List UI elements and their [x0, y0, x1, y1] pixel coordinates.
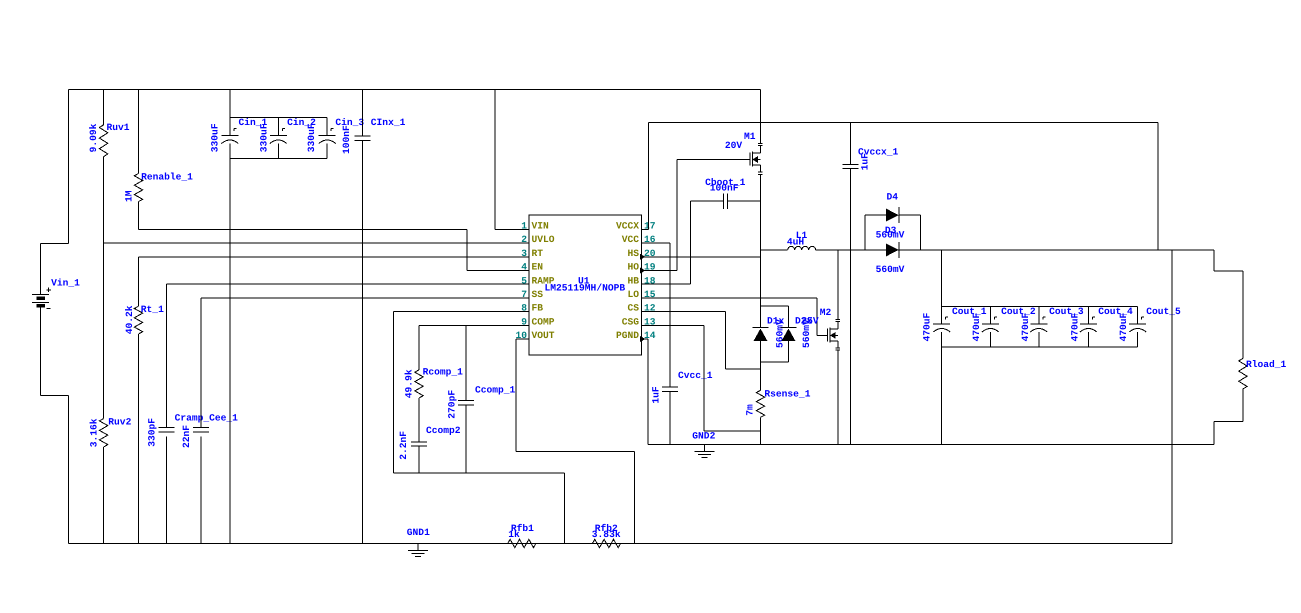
svg-text:1uF: 1uF	[650, 386, 661, 404]
svg-text:HO: HO	[627, 262, 639, 273]
svg-text:470uF: 470uF	[922, 312, 933, 341]
svg-text:3.83k: 3.83k	[592, 529, 621, 540]
resistor Rfb2	[592, 539, 620, 547]
svg-text:40.2k: 40.2k	[124, 305, 135, 334]
svg-text:VCCX: VCCX	[616, 221, 639, 232]
svg-text:Cout_5: Cout_5	[1146, 306, 1181, 317]
svg-text:9: 9	[521, 316, 527, 327]
ground GND1	[417, 544, 419, 551]
resistor Rfb1	[508, 539, 536, 547]
wire switch node to output node	[816, 249, 1214, 251]
svg-text:M1: M1	[744, 131, 756, 142]
wire Cout column 1	[941, 250, 943, 307]
capacitor Cvcc_1	[662, 386, 678, 388]
svg-text:8: 8	[521, 303, 527, 314]
svg-text:7m: 7m	[744, 404, 755, 416]
svg-text:20V: 20V	[725, 140, 743, 151]
wire SS net	[201, 297, 529, 299]
svg-text:4uH: 4uH	[787, 237, 805, 248]
svg-text:Rt_1: Rt_1	[141, 304, 164, 315]
resistor Rload_1	[1213, 250, 1215, 271]
svg-text:D3: D3	[885, 225, 897, 236]
wire comp network bottom	[393, 472, 564, 474]
diode D4	[864, 215, 866, 250]
wire M1 source to switch node	[759, 174, 761, 250]
svg-text:330pF: 330pF	[146, 418, 157, 447]
wire HB to Cboot	[642, 283, 691, 285]
svg-text:4: 4	[521, 262, 527, 273]
svg-text:22nF: 22nF	[181, 425, 192, 448]
svg-text:2.2nF: 2.2nF	[398, 431, 409, 460]
wire HO to M1 gate	[642, 270, 677, 272]
inductor L1	[760, 249, 787, 251]
svg-text:VOUT: VOUT	[532, 330, 555, 341]
wire VCC net	[642, 242, 670, 244]
resistor Ruv1	[103, 90, 105, 125]
wire UVLO	[104, 242, 529, 244]
svg-text:Cvcc_1: Cvcc_1	[678, 370, 713, 381]
wire VCCX rail	[649, 122, 1158, 124]
svg-text:Ccomp_1: Ccomp_1	[475, 384, 516, 395]
wire CS net	[642, 311, 726, 313]
svg-text:3.16k: 3.16k	[88, 418, 99, 447]
wire FB net	[393, 311, 529, 313]
svg-text:1k: 1k	[508, 529, 520, 540]
svg-text:Renable_1: Renable_1	[141, 172, 193, 183]
svg-text:Ruv1: Ruv1	[107, 122, 130, 133]
wire CSG net	[642, 324, 705, 326]
transistor M1	[759, 123, 761, 144]
op-amp U1 LM25119MH/NOPB body	[529, 215, 642, 355]
capacitor Ccomp2	[418, 398, 420, 442]
svg-text:COMP: COMP	[532, 316, 555, 327]
svg-text:LM25119MH/NOPB: LM25119MH/NOPB	[545, 283, 626, 294]
svg-text:Cramp_Cee_1: Cramp_Cee_1	[175, 412, 239, 423]
node UVLO divider tap	[103, 157, 105, 419]
svg-text:560mV: 560mV	[876, 264, 905, 275]
transistor M2	[837, 250, 839, 319]
svg-text:GND1: GND1	[407, 527, 430, 538]
wire EN net	[139, 228, 468, 230]
svg-text:330uF: 330uF	[209, 123, 220, 152]
svg-text:CInx_1: CInx_1	[371, 117, 406, 128]
svg-text:UVLO: UVLO	[532, 234, 555, 245]
wire Cout box	[942, 305, 1138, 307]
capacitor Cvccx_1	[850, 123, 852, 165]
svg-text:100nF: 100nF	[710, 182, 739, 193]
svg-text:GND2: GND2	[692, 430, 715, 441]
svg-text:270pF: 270pF	[446, 390, 457, 419]
capacitor Cout_4	[1087, 306, 1089, 323]
wire battery top jog	[67, 90, 69, 244]
capacitor Cout_5	[1137, 306, 1139, 323]
svg-text:Rsense_1: Rsense_1	[764, 388, 810, 399]
resistor Rcomp_1	[418, 325, 420, 370]
svg-text:470uF: 470uF	[1118, 312, 1129, 341]
wire GND2 rail	[648, 444, 1214, 446]
capacitor Cin_2	[277, 117, 279, 135]
svg-text:PGND: PGND	[616, 330, 639, 341]
svg-text:RAMP: RAMP	[532, 275, 555, 286]
capacitor Cin_1	[221, 134, 238, 136]
svg-text:D4: D4	[887, 192, 899, 203]
wire LO to M2 gate	[642, 297, 817, 299]
svg-text:3: 3	[521, 248, 527, 259]
wire Cin box	[230, 116, 327, 118]
wire diode pair bottom	[761, 361, 789, 363]
svg-text:10: 10	[515, 330, 527, 341]
resistor Rsense_1	[760, 369, 762, 390]
svg-text:LO: LO	[627, 289, 639, 300]
svg-text:VCC: VCC	[622, 234, 640, 245]
svg-text:470uF: 470uF	[1020, 312, 1031, 341]
svg-text:SS: SS	[532, 289, 544, 300]
wire VIN pin net	[494, 90, 496, 230]
wire VCCX net	[642, 228, 649, 230]
svg-text:HB: HB	[627, 275, 639, 286]
svg-text:5: 5	[521, 275, 527, 286]
svg-text:Vin_1: Vin_1	[51, 277, 80, 288]
voltage source Vin_1	[32, 293, 49, 295]
svg-text:2: 2	[521, 234, 527, 245]
wire PGND net	[642, 338, 648, 340]
svg-text:VIN: VIN	[532, 221, 550, 232]
svg-text:CS: CS	[627, 303, 639, 314]
capacitor Cout_1	[941, 306, 943, 323]
svg-text:330uF: 330uF	[306, 123, 317, 152]
diode D3	[886, 243, 899, 256]
capacitor Cout_3	[1038, 306, 1040, 323]
capacitor Ccomp_1	[465, 325, 467, 400]
svg-text:CSG: CSG	[622, 316, 640, 327]
svg-text:470uF: 470uF	[971, 312, 982, 341]
svg-text:FB: FB	[532, 303, 544, 314]
diode D1x	[760, 250, 762, 306]
wire VCCX rail drop	[1157, 123, 1159, 250]
svg-text:1M: 1M	[123, 190, 134, 202]
svg-text:560mV: 560mV	[801, 319, 812, 348]
wire output sense drop	[1171, 250, 1173, 544]
svg-text:Rload_1: Rload_1	[1246, 359, 1287, 370]
svg-text:Rcomp_1: Rcomp_1	[423, 366, 464, 377]
wire diode pair top	[761, 305, 789, 307]
svg-text:560mV: 560mV	[775, 319, 786, 348]
diode D2x	[788, 306, 790, 327]
svg-text:330uF: 330uF	[258, 123, 269, 152]
wire VOUT net	[516, 338, 529, 340]
svg-text:470uF: 470uF	[1070, 312, 1081, 341]
svg-text:Ccomp2: Ccomp2	[426, 425, 461, 436]
wire HS net	[642, 256, 761, 258]
svg-text:7: 7	[521, 289, 527, 300]
pin marker HO	[640, 268, 646, 274]
wire GND1 bottom rail	[68, 543, 1172, 545]
ground GND2	[704, 445, 706, 452]
pin marker HS	[640, 254, 646, 260]
svg-text:RT: RT	[532, 248, 544, 259]
svg-text:1uF: 1uF	[859, 153, 870, 171]
svg-text:9.09k: 9.09k	[88, 123, 99, 152]
svg-text:HS: HS	[627, 248, 639, 259]
capacitor Cin_3	[326, 117, 328, 135]
capacitor Cramp 330pF	[158, 427, 174, 429]
svg-text:M2: M2	[820, 307, 832, 318]
wire battery bottom jog	[40, 307, 42, 395]
pin marker PGND	[640, 336, 646, 342]
svg-text:1: 1	[521, 221, 527, 232]
svg-text:49.9k: 49.9k	[403, 369, 414, 398]
capacitor Cout_2	[989, 306, 991, 323]
resistor Rt_1	[139, 256, 530, 258]
svg-text:100nF: 100nF	[341, 125, 352, 154]
capacitor Cramp 22nF	[193, 427, 209, 429]
svg-text:Ruv2: Ruv2	[108, 416, 131, 427]
resistor Ruv2	[99, 419, 107, 448]
wire top VIN rail	[68, 89, 760, 91]
resistor Renable_1	[138, 90, 140, 174]
wire RAMP net	[166, 283, 529, 285]
wire Cin_1 column	[229, 90, 231, 136]
svg-text:EN: EN	[532, 262, 544, 273]
capacitor CInx_1	[362, 90, 364, 137]
capacitor Cboot_1	[690, 200, 723, 202]
wire COMP net	[419, 324, 529, 326]
